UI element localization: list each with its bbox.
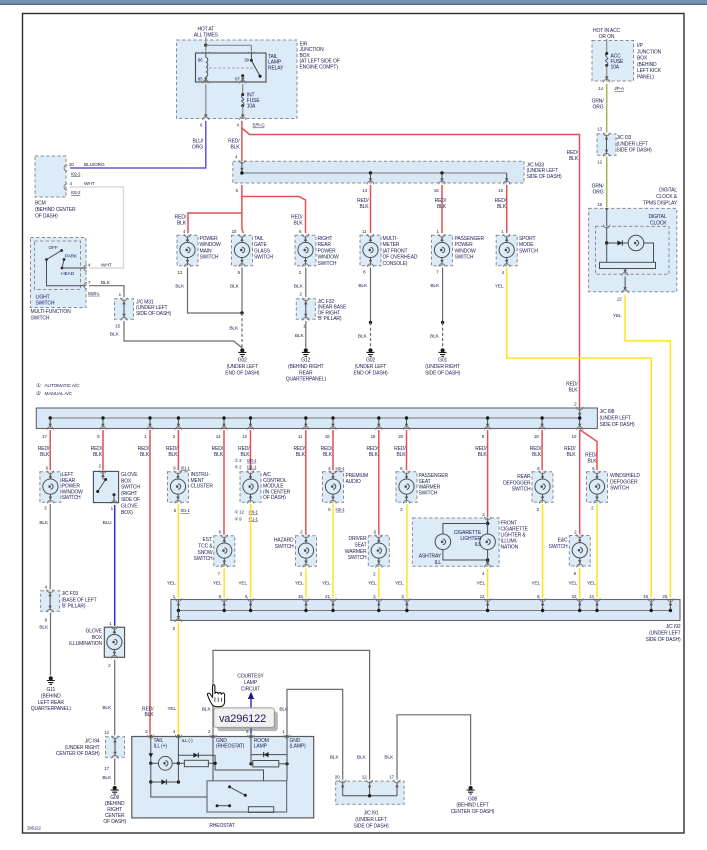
hazard switch	[296, 536, 317, 567]
wire hot-at feed into relay	[205, 37, 207, 45]
svg-text:RED/BLK: RED/BLK	[321, 446, 333, 458]
I92 pin 3 entry	[406, 600, 408, 610]
svg-text:YEL: YEL	[613, 313, 622, 319]
svg-text:BLK: BLK	[230, 284, 240, 290]
clock diode D1	[607, 242, 628, 244]
svg-text:13: 13	[597, 127, 602, 132]
svg-text:BLK: BLK	[294, 284, 304, 290]
rheostat diode D2	[151, 781, 179, 783]
rheostat switch sub-box	[207, 781, 287, 812]
wire BLK S1 to junction	[188, 268, 243, 314]
glove box illumination lamp	[104, 627, 124, 657]
svg-text:86: 86	[198, 58, 203, 63]
passenger seat warmer switch	[396, 472, 417, 503]
svg-text:I02-2: I02-2	[71, 190, 81, 195]
svg-text:14: 14	[362, 188, 367, 193]
rear defogger switch	[532, 472, 553, 503]
svg-text:BLK: BLK	[330, 755, 340, 761]
wire GRN/ORG I33 to digital clock	[606, 157, 608, 207]
svg-text:RED/BLK: RED/BLK	[475, 446, 487, 458]
J/C I91 connector	[336, 781, 404, 804]
svg-text:BLK: BLK	[384, 755, 394, 761]
clock exit wire	[624, 269, 626, 274]
tail gate glass switch S2	[232, 235, 253, 266]
passenger power window switch S5	[432, 235, 453, 266]
svg-text:RED/BLK: RED/BLK	[585, 453, 597, 465]
svg-text:11: 11	[362, 229, 367, 234]
I92 pin 22 entry	[579, 600, 581, 610]
svg-text:RHEOSTAT: RHEOSTAT	[209, 823, 234, 829]
svg-text:RED/BLK: RED/BLK	[530, 446, 542, 458]
I98 pin 16 exit	[332, 418, 334, 428]
I98 pin 20 exit	[406, 418, 408, 428]
svg-text:WHT: WHT	[101, 262, 112, 268]
rheostat sub resistor R3	[248, 807, 273, 813]
svg-text:BLK: BLK	[110, 332, 120, 338]
svg-text:YEL: YEL	[167, 580, 176, 586]
wire BLU/ORG relay pin6 to BCM pin20	[70, 121, 206, 168]
front cigarette lighter and illumination box	[412, 518, 499, 566]
I92 pin 9 entry	[223, 600, 225, 610]
J/C F03 connector	[41, 591, 60, 612]
J/C I33 connector	[597, 134, 616, 155]
svg-text:BLK: BLK	[430, 334, 440, 340]
wire RED/BLK I98-10 to E&C switch and windshield defogger	[579, 430, 581, 535]
multi-meter S4	[360, 235, 381, 266]
svg-text:RED/BLK: RED/BLK	[495, 198, 507, 210]
power window main switch S1	[177, 235, 198, 266]
rheostat ILL- branch resistor R1	[177, 737, 179, 782]
tail lamp relay U1	[196, 53, 267, 82]
svg-text:BLK: BLK	[102, 705, 112, 711]
I/P junction box	[592, 41, 634, 82]
wire RED/BLK I98-1 to rheostat TAIL ILL	[149, 430, 151, 734]
wire RED/BLK I98-17 to left rear power window switch	[49, 430, 51, 470]
svg-text:I20-1: I20-1	[247, 458, 257, 463]
svg-text:BLK: BLK	[229, 326, 239, 332]
A/C control module	[240, 472, 261, 503]
wire BLK LRPW to J/C F03	[49, 504, 51, 590]
svg-text:20: 20	[398, 434, 403, 439]
wire YEL EST to I92 pin9	[223, 569, 225, 598]
I92 pin 5 exit to rheostat	[177, 611, 179, 620]
svg-text:19: 19	[371, 434, 376, 439]
premium audio	[323, 472, 344, 503]
I98 pin 18 exit	[541, 418, 543, 428]
svg-text:② 2: ② 2	[234, 465, 242, 470]
light switch inner box	[35, 241, 81, 290]
svg-text:OFF: OFF	[49, 245, 58, 251]
I98 pin 8 exit	[102, 418, 104, 428]
I92 pin 19 entry	[650, 600, 652, 610]
svg-text:H2-1: H2-1	[336, 466, 346, 471]
svg-text:30: 30	[244, 58, 249, 63]
J/C I94 connector	[106, 737, 125, 758]
wire RED/BLK relay pin4 feed	[241, 121, 243, 161]
svg-text:① 12: ① 12	[234, 510, 244, 515]
I98 pin 8 exit	[487, 418, 489, 428]
wire YEL E&C to I92 pin22	[579, 568, 581, 598]
svg-text:12: 12	[617, 297, 622, 302]
wire YEL premium audio to I92 pin21	[332, 504, 334, 598]
svg-text:② 9: ② 9	[234, 516, 242, 521]
svg-text:16: 16	[325, 434, 330, 439]
svg-text:BLK: BLK	[39, 625, 49, 631]
svg-text:RED/BLK: RED/BLK	[212, 446, 224, 458]
cigarette lighter internal wiring	[487, 519, 489, 524]
J/C I98 bus connector	[36, 408, 597, 429]
left rear power window switch	[40, 472, 61, 503]
J/C I92 bus connector	[171, 600, 680, 621]
ground G11	[49, 676, 53, 680]
tooltip va296122	[217, 711, 277, 731]
svg-text:20: 20	[335, 774, 340, 779]
EST TCC snow switch	[214, 536, 235, 567]
mouse cursor hand	[207, 685, 224, 707]
I98 pin 12 exit	[250, 418, 252, 428]
svg-text:ROOMLAMP: ROOMLAMP	[254, 738, 269, 750]
wire RED/BLK M33 pin15 to passenger power window switch	[441, 185, 443, 233]
svg-text:RED/BLK: RED/BLK	[293, 446, 305, 458]
svg-text:RED/BLK: RED/BLK	[91, 446, 103, 458]
svg-text:17: 17	[42, 434, 47, 439]
wire RED/BLK I98-8b to cigarette lighter	[487, 430, 489, 517]
instrument cluster	[168, 472, 189, 503]
ground G02 under multi-meter	[368, 348, 372, 352]
svg-text:MANUAL A/C: MANUAL A/C	[45, 391, 73, 397]
svg-text:BLK: BLK	[39, 520, 49, 526]
svg-text:RED/BLK: RED/BLK	[394, 446, 406, 458]
svg-text:12: 12	[242, 434, 247, 439]
svg-text:16: 16	[498, 188, 503, 193]
multi-function switch outer box	[31, 238, 87, 308]
wire YEL windshield defogger to I92 pin14	[596, 504, 598, 598]
wire RED/BLK I98-12 to AC control module	[250, 430, 252, 470]
svg-text:H2-1: H2-1	[336, 507, 346, 512]
svg-text:YEL: YEL	[213, 580, 222, 586]
svg-text:RED/BLK: RED/BLK	[138, 446, 150, 458]
wire BLU glove box switch to illumination	[114, 505, 116, 626]
ashtray illumination lamp	[435, 534, 451, 550]
wire YEL AC module to I92 pin6	[250, 504, 252, 598]
svg-text:ILL (-): ILL (-)	[182, 738, 194, 743]
svg-text:DIGITALCLOCK: DIGITALCLOCK	[648, 214, 667, 226]
svg-text:BLK: BLK	[102, 775, 112, 781]
E&C switch	[569, 536, 590, 567]
I98 pin 19 exit	[378, 418, 380, 428]
svg-text:YEL: YEL	[322, 580, 331, 586]
digital clock inner box	[596, 226, 670, 274]
wire RED/BLK I98-16 to premium audio	[332, 430, 334, 470]
svg-text:WHT: WHT	[84, 181, 95, 187]
I92 pin 20 entry	[669, 600, 671, 610]
wire YEL sport mode to I92 pin19	[507, 268, 652, 598]
wire BLK I94 to ground G09	[114, 759, 116, 786]
svg-text:① 2: ① 2	[234, 458, 242, 463]
svg-text:RED/BLK: RED/BLK	[566, 382, 578, 394]
I98 pin 17 exit	[49, 418, 51, 428]
I92 pin 12 entry	[487, 600, 489, 610]
svg-text:RED/BLK: RED/BLK	[166, 446, 178, 458]
svg-text:10: 10	[571, 434, 576, 439]
wire BLK illumination to J/C I94	[114, 660, 116, 736]
right rear power window switch S3	[295, 235, 316, 266]
wire RED/BLK I98-14 to EST TCC snow switch	[223, 430, 225, 535]
I98 pin 11 exit	[305, 418, 307, 428]
wire RED/BLK M33 pin14 to multi-meter	[370, 185, 372, 233]
wire BLK M31 to ground G02	[124, 321, 242, 348]
rheostat gnd lamp branch	[286, 737, 288, 781]
wire BLK rheostat GND(LAMP) to J/C I91 pin20	[287, 689, 343, 779]
svg-text:YEL: YEL	[368, 580, 377, 586]
svg-text:20: 20	[662, 594, 667, 599]
svg-text:BLK: BLK	[295, 333, 305, 339]
svg-text:YEL: YEL	[495, 284, 504, 290]
svg-text:YEL: YEL	[476, 580, 485, 586]
wire YEL driver warmer to I92 pin2	[378, 569, 380, 598]
wire BLK shared to ground G02	[241, 313, 243, 348]
ground G12	[304, 348, 308, 352]
J/C M33 bus connector	[233, 161, 524, 183]
J/C M31 connector	[115, 299, 134, 320]
wire RED/BLK I98-19 to driver seat warmer switch	[378, 430, 380, 535]
I98 pin 10 exit	[579, 418, 581, 428]
svg-text:RED/BLK: RED/BLK	[142, 706, 154, 718]
cigarette lighter illumination lamp	[487, 524, 489, 535]
wire RED/BLK I98-20 to passenger seat warmer switch	[406, 430, 408, 470]
svg-text:10: 10	[232, 229, 237, 234]
svg-text:BLK: BLK	[357, 755, 367, 761]
svg-text:I01-1: I01-1	[181, 508, 191, 513]
wire YEL clock to I92 pin20	[625, 295, 670, 598]
rheostat tail ill branch	[150, 737, 152, 763]
wire BLK light switch to J/C M31	[89, 286, 124, 298]
svg-text:RED/BLK: RED/BLK	[357, 198, 369, 210]
I98 pin 14 exit	[223, 418, 225, 428]
wire YEL hazard to I92 pin16	[305, 569, 307, 598]
svg-text:BLK: BLK	[358, 334, 368, 340]
svg-text:14: 14	[589, 594, 594, 599]
svg-text:YEL: YEL	[238, 580, 247, 586]
svg-text:15: 15	[434, 188, 439, 193]
svg-text:HEAD: HEAD	[61, 271, 74, 277]
INT FUSE 10A F1	[205, 84, 207, 118]
svg-text:17: 17	[104, 766, 109, 771]
svg-text:BLK: BLK	[175, 284, 185, 290]
svg-text:12: 12	[597, 160, 602, 165]
wire BLK J/C I91 pin17 to ground G08	[397, 715, 471, 785]
svg-text:YEL: YEL	[531, 580, 540, 586]
svg-text:BLK: BLK	[430, 283, 440, 289]
svg-text:19: 19	[643, 594, 648, 599]
svg-text:BLK: BLK	[101, 280, 111, 286]
svg-text:BLU/ORG: BLU/ORG	[84, 162, 105, 168]
svg-text:AUTOMATIC A/C: AUTOMATIC A/C	[45, 383, 81, 389]
driver seat warmer switch	[368, 536, 389, 567]
svg-text:GRN/ORG: GRN/ORG	[592, 99, 605, 111]
wire YEL instrument cluster to I92 pin1	[177, 504, 179, 598]
svg-text:HAZARDSWITCH: HAZARDSWITCH	[274, 538, 294, 550]
svg-text:RED/BLK: RED/BLK	[175, 215, 187, 227]
svg-text:M20-L: M20-L	[88, 291, 100, 296]
J/C F32 connector	[296, 299, 315, 320]
svg-text:12: 12	[104, 730, 109, 735]
svg-text:I02-2: I02-2	[71, 172, 81, 177]
BCM module	[35, 156, 66, 197]
svg-text:YEL: YEL	[568, 580, 577, 586]
svg-text:RED/BLK: RED/BLK	[567, 150, 579, 162]
svg-text:13: 13	[177, 270, 182, 275]
svg-text:I/P-A: I/P-A	[615, 86, 626, 91]
svg-text:E/R-G: E/R-G	[253, 123, 266, 128]
I98 pin 1 exit	[149, 418, 151, 428]
wire RED/BLK I98-11 to hazard switch	[305, 430, 307, 535]
wire BLK F32 to ground G12	[305, 321, 307, 348]
I92 pin 21 entry	[332, 600, 334, 610]
svg-text:②: ②	[36, 391, 41, 397]
svg-text:22: 22	[572, 594, 577, 599]
clock bottom bar	[600, 262, 656, 268]
svg-text:85: 85	[198, 77, 203, 82]
svg-text:12: 12	[480, 594, 485, 599]
E/R junction box (dashed)	[177, 40, 298, 119]
svg-text:11: 11	[298, 434, 303, 439]
svg-text:12: 12	[362, 774, 367, 779]
rheostat room lamp branch resistor R2	[250, 737, 252, 764]
svg-text:RED/BLK: RED/BLK	[435, 198, 447, 210]
relay internal dashed link	[209, 67, 256, 69]
ground G08	[469, 786, 473, 790]
wire RED/BLK M33 pin16 to sport mode switch	[506, 185, 508, 233]
svg-text:I01-1: I01-1	[181, 465, 191, 470]
clock lamp	[628, 235, 644, 251]
I92 pin 2 entry	[378, 600, 380, 610]
clock entry wire	[606, 209, 608, 226]
ground G01	[441, 348, 445, 352]
top window band	[0, 0, 707, 4]
svg-text:16: 16	[298, 594, 303, 599]
svg-text:15: 15	[115, 323, 120, 328]
svg-text:RED/BLK: RED/BLK	[228, 139, 240, 151]
I92 pin 8 entry	[542, 600, 544, 610]
I92 pin 1 entry	[177, 600, 179, 610]
svg-text:20: 20	[69, 162, 74, 167]
svg-text:YEL: YEL	[295, 580, 304, 586]
I92 pin 14 entry	[596, 600, 598, 610]
ACC FUSE 10A	[606, 39, 608, 54]
windshield defogger switch	[587, 472, 608, 503]
svg-text:①: ①	[36, 383, 41, 389]
svg-text:YEL: YEL	[587, 580, 596, 586]
ground G02	[240, 348, 244, 352]
wire BLK rheostat GND(RHEOSTAT) to J/C I91 pin12	[213, 650, 370, 779]
rheostat box	[132, 737, 314, 818]
wire YEL I92 pin5 to rheostat ILL-	[177, 622, 179, 734]
sport mode switch S6	[496, 235, 517, 266]
cig lighter exit to I92 pin13	[487, 560, 489, 565]
svg-text:17: 17	[389, 774, 394, 779]
svg-text:RED/BLK: RED/BLK	[238, 446, 250, 458]
wire WHT BCM to light switch	[70, 187, 124, 268]
svg-text:296122: 296122	[27, 826, 41, 831]
svg-text:RED/BLK: RED/BLK	[291, 215, 303, 227]
svg-text:va296122: va296122	[219, 713, 266, 725]
svg-text:YEL: YEL	[395, 580, 404, 586]
relay coil	[205, 53, 207, 58]
glove box switch (solid box with contacts)	[93, 471, 118, 502]
svg-text:BLU/ORG: BLU/ORG	[192, 139, 204, 151]
ground G09	[113, 786, 117, 790]
wire YEL passenger seat warmer to I92 pin3	[406, 504, 408, 598]
wire BLK S3 to J/C F32	[305, 268, 307, 298]
svg-text:BLK: BLK	[358, 283, 368, 289]
wire YEL rear defogger to I92 pin8	[542, 504, 544, 598]
wire BLK multi-meter to ground G02	[370, 268, 372, 323]
wire RED/BLK M33 pin5 to switches S1 S2 S3	[242, 185, 243, 233]
svg-text:14: 14	[598, 86, 603, 91]
svg-text:RED/BLK: RED/BLK	[564, 446, 576, 458]
svg-text:87: 87	[235, 77, 240, 82]
wire GRN/ORG fuse to J/C I33	[606, 84, 608, 133]
rheostat GND branch	[212, 737, 214, 781]
I92 pin 6 entry	[250, 600, 252, 610]
svg-text:14: 14	[216, 434, 221, 439]
svg-text:PARK: PARK	[65, 254, 78, 260]
svg-text:RED/BLK: RED/BLK	[38, 446, 50, 458]
svg-text:16: 16	[597, 202, 602, 207]
wire E/R-G horizontal to right	[242, 128, 580, 408]
svg-text:YEL: YEL	[167, 706, 176, 712]
wire RED/BLK I98-3 to instrument cluster	[177, 430, 179, 470]
wire BLK F03 to ground G11	[50, 613, 52, 676]
wire RED/BLK I98-8 to glove box switch	[102, 430, 104, 470]
svg-text:BLK: BLK	[202, 706, 212, 712]
wire BLK passenger window switch to ground G01	[442, 268, 444, 323]
wire BLK S2 to junction	[241, 268, 243, 314]
svg-text:18: 18	[534, 434, 539, 439]
I98 pin 3 exit	[177, 418, 179, 428]
svg-text:21: 21	[325, 594, 330, 599]
svg-text:I21-1: I21-1	[247, 465, 257, 470]
I92 pin 16 entry	[305, 600, 307, 610]
courtesy lamp circuit arrow (BLU)	[250, 698, 252, 735]
svg-text:BLU: BLU	[103, 520, 113, 526]
I98 entry pin 2 from relay feed	[579, 409, 581, 418]
svg-text:GRN/ORG: GRN/ORG	[592, 184, 605, 196]
svg-text:DRIVERSEATWARMERSWITCH: DRIVERSEATWARMERSWITCH	[345, 536, 367, 561]
wire RED/BLK I98-18 to rear defogger switch	[541, 430, 543, 470]
svg-text:RED/BLK: RED/BLK	[366, 446, 378, 458]
